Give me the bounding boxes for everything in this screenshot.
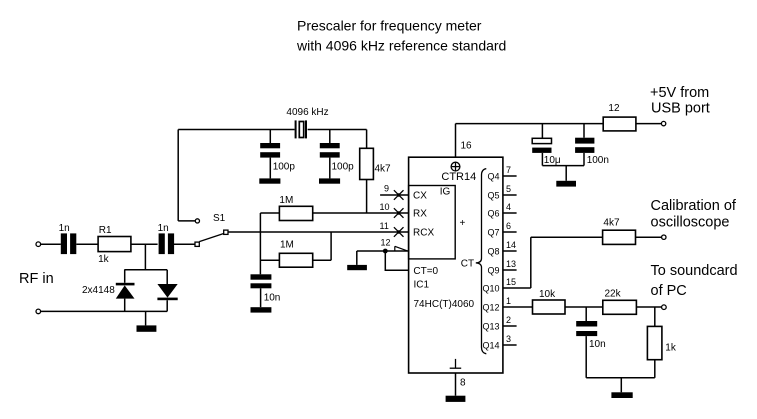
- wire 10k to 22k: [565, 306, 603, 308]
- resistor 1k (right): [647, 307, 676, 378]
- capacitor 10u polarized: [532, 124, 561, 166]
- pin 2 stub: [503, 315, 517, 326]
- svg-text:Q4: Q4: [487, 172, 499, 182]
- pin 9 CX stub: [380, 184, 409, 200]
- resistor 4k7 (calibration): [603, 217, 636, 244]
- wire rail vertical: [259, 213, 261, 274]
- ground (pin 12): [347, 265, 367, 270]
- svg-text:10n: 10n: [589, 339, 606, 350]
- pin 3 stub: [503, 334, 517, 345]
- svg-text:22k: 22k: [605, 288, 622, 299]
- ground symbol inside IC: [450, 359, 462, 368]
- ground (pin 8): [446, 396, 466, 402]
- pin 6 stub: [503, 221, 517, 232]
- capacitor 10n (right): [576, 307, 605, 378]
- node pin12 junction: [383, 249, 388, 254]
- pin 4 stub: [503, 202, 517, 213]
- pin 5 stub: [503, 184, 517, 195]
- pin 14 stub: [503, 240, 517, 251]
- ground (diodes): [137, 325, 157, 331]
- svg-text:S1: S1: [213, 213, 226, 224]
- resistor 22k: [603, 288, 637, 314]
- svg-text:Q5: Q5: [487, 191, 499, 201]
- svg-text:2: 2: [506, 315, 511, 325]
- crystal Q 4096 kHz: [286, 107, 328, 139]
- svg-text:Q7: Q7: [487, 228, 499, 238]
- resistor R1 1k: [98, 225, 131, 265]
- resistor 10k: [533, 289, 566, 314]
- wire ground stub (caps): [565, 166, 567, 181]
- svg-text:R1: R1: [99, 225, 112, 236]
- svg-text:13: 13: [506, 259, 516, 269]
- svg-text:10n: 10n: [264, 293, 281, 304]
- wire cap to S1: [174, 243, 195, 245]
- svg-text:4096 kHz: 4096 kHz: [286, 107, 328, 118]
- svg-text:USB port: USB port: [651, 101, 710, 117]
- svg-text:1: 1: [506, 296, 511, 306]
- pin 16 wire: [456, 124, 473, 158]
- wire resistor to terminal: [636, 123, 662, 125]
- capacitor 1n (second): [158, 223, 174, 254]
- terminal RF in bottom: [36, 309, 41, 314]
- wire bottom rail from RF in: [41, 310, 167, 312]
- svg-text:15: 15: [506, 277, 516, 287]
- svg-text:6: 6: [506, 221, 511, 231]
- svg-text:100p: 100p: [273, 162, 296, 173]
- svg-text:oscilloscope: oscilloscope: [651, 215, 730, 231]
- pin 8 wire: [456, 373, 467, 396]
- wire pin 15 to calibration: [503, 237, 603, 288]
- ground (right 100p): [319, 178, 340, 183]
- pin 10 RX cross: [380, 202, 404, 218]
- pin 11 RCX cross: [380, 221, 404, 237]
- svg-text:4k7: 4k7: [375, 164, 392, 175]
- svg-text:Q6: Q6: [487, 209, 499, 219]
- resistor 1M (upper): [260, 195, 312, 221]
- svg-text:with 4096 kHz reference standa: with 4096 kHz reference standard: [296, 38, 506, 54]
- svg-text:11: 11: [380, 221, 389, 231]
- ground (power caps): [556, 181, 576, 187]
- label Calibration of oscilloscope: [651, 198, 737, 231]
- svg-text:8: 8: [460, 377, 466, 388]
- svg-text:10k: 10k: [539, 289, 556, 300]
- svg-text:Calibration of: Calibration of: [651, 198, 737, 214]
- wire pin 1 to 10k: [503, 296, 533, 307]
- svg-text:4k7: 4k7: [603, 217, 620, 228]
- wire input top: [41, 243, 61, 245]
- svg-text:10: 10: [380, 202, 390, 212]
- svg-text:2x4148: 2x4148: [82, 285, 115, 296]
- svg-text:74HC(T)4060: 74HC(T)4060: [414, 299, 475, 310]
- wire junction down to diodes: [144, 244, 146, 270]
- capacitor 100p right: [320, 130, 354, 179]
- wire oscillator top right: [308, 129, 367, 131]
- svg-text:9: 9: [384, 184, 389, 194]
- capacitor 100n: [575, 124, 609, 166]
- IC output labels Q4..Q14: [482, 172, 499, 351]
- svg-text:CT=0: CT=0: [413, 266, 438, 277]
- svg-text:16: 16: [461, 141, 473, 152]
- svg-text:RX: RX: [413, 209, 427, 220]
- svg-text:1M: 1M: [279, 195, 293, 206]
- svg-text:100n: 100n: [587, 155, 609, 166]
- svg-text:RCX: RCX: [413, 228, 434, 239]
- svg-text:Q8: Q8: [487, 247, 499, 257]
- wire RX line pin 10: [313, 212, 409, 214]
- resistor 4k7 (oscillator): [360, 130, 391, 214]
- svg-text:Q12: Q12: [482, 303, 499, 313]
- svg-text:3: 3: [506, 334, 511, 344]
- svg-text:Q13: Q13: [482, 322, 499, 332]
- svg-text:1k: 1k: [665, 342, 677, 353]
- svg-text:CT: CT: [461, 258, 474, 269]
- svg-text:Q10: Q10: [482, 284, 499, 294]
- svg-text:Prescaler for frequency meter: Prescaler for frequency meter: [297, 18, 482, 34]
- label To soundcard of PC: [651, 263, 738, 299]
- terminal calibration: [662, 235, 666, 239]
- svg-text:of PC: of PC: [651, 283, 687, 299]
- capacitor 1n (input left): [59, 223, 77, 254]
- wire 4k7 to terminal: [636, 236, 662, 238]
- wire power rail: [456, 123, 604, 125]
- wire 22k to terminal: [636, 306, 661, 308]
- capacitor 10n (left): [251, 274, 281, 307]
- wire bottom rail right: [586, 377, 655, 379]
- svg-text:IG: IG: [440, 187, 451, 198]
- label +5V from USB port: [650, 85, 710, 117]
- svg-text:1k: 1k: [98, 254, 110, 265]
- svg-text:12: 12: [381, 237, 391, 247]
- svg-text:12: 12: [608, 103, 620, 114]
- svg-text:CTR14: CTR14: [441, 171, 476, 183]
- pin 12 reset wire: [357, 237, 409, 270]
- terminal soundcard: [662, 305, 667, 310]
- resistor 12: [603, 103, 636, 131]
- capacitor 100p left: [260, 130, 295, 179]
- power plus symbol inside IC: [451, 162, 460, 171]
- svg-text:7: 7: [506, 165, 511, 175]
- svg-text:5: 5: [506, 184, 511, 194]
- ground (soundcard filter): [611, 392, 632, 398]
- wire R1 to second cap: [131, 243, 158, 245]
- wire ground stub (diodes): [145, 311, 147, 325]
- svg-text:4: 4: [506, 202, 511, 212]
- svg-text:1n: 1n: [158, 223, 169, 234]
- wire oscillator top left: [178, 129, 294, 131]
- title text: [296, 18, 506, 54]
- pin 13 stub: [503, 259, 517, 270]
- wire diode top rail: [124, 269, 167, 271]
- svg-text:IC1: IC1: [414, 280, 430, 291]
- svg-text:10μ: 10μ: [544, 155, 561, 166]
- wire RCX line pin 11: [228, 231, 409, 233]
- terminal RF in top: [36, 242, 41, 247]
- svg-text:Q14: Q14: [482, 341, 499, 351]
- wire ground stub right: [620, 378, 622, 393]
- svg-text:CX: CX: [413, 191, 427, 202]
- wire cap to R1: [76, 243, 98, 245]
- diode D2 (right, anode up): [157, 270, 177, 312]
- op-amp IC1 outline 74HC(T)4060: [409, 157, 503, 373]
- svg-text:Q9: Q9: [487, 266, 499, 276]
- terminal +5V: [661, 121, 665, 125]
- wire oscillator loop left vertical: [177, 130, 179, 221]
- svg-text:100p: 100p: [332, 162, 355, 173]
- svg-text:+5V from: +5V from: [650, 85, 709, 101]
- CT brace: [461, 169, 487, 354]
- svg-text:+: +: [460, 218, 466, 229]
- svg-text:RF in: RF in: [19, 271, 54, 287]
- ground (left 100p): [259, 178, 280, 183]
- switch S1: [178, 213, 228, 246]
- svg-text:1n: 1n: [59, 223, 70, 234]
- svg-text:14: 14: [506, 240, 516, 250]
- resistor 1M (lower): [260, 232, 331, 267]
- svg-text:1M: 1M: [280, 239, 294, 250]
- diode D1 (left, anode down): [116, 270, 135, 312]
- pin 7 stub: [503, 165, 517, 176]
- ground (left 10n): [251, 307, 272, 312]
- wire join caps: [542, 165, 584, 167]
- svg-text:To soundcard: To soundcard: [651, 263, 738, 279]
